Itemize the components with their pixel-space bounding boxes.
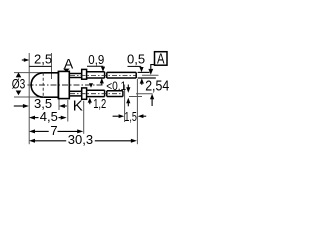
- dome-body junction dashed: [42, 73, 44, 97]
- svg-text:Ø3: Ø3: [12, 77, 25, 92]
- centerline: [28, 84, 104, 86]
- dim 2,5: [22, 59, 25, 61]
- lower lead crimp: [82, 88, 87, 99]
- lower lead seg2 flat: [87, 89, 105, 91]
- step arrows: [127, 85, 129, 89]
- extension line dome bottom: [14, 96, 42, 98]
- dim 7: [29, 129, 35, 133]
- dim 4,5: [29, 116, 35, 120]
- upper lead seg2 flat: [87, 71, 105, 73]
- svg-text:K: K: [73, 98, 83, 115]
- body top line: [43, 72, 58, 74]
- extension line dome top: [14, 72, 42, 74]
- datum leader: [151, 65, 155, 69]
- upper lead end: [135, 72, 137, 78]
- extension line body end: [58, 99, 60, 110]
- svg-text:A: A: [157, 52, 165, 68]
- body end vertical: [57, 71, 59, 98]
- extension line lower lead axis: [136, 93, 153, 95]
- flange: [58, 71, 69, 98]
- extension line lower lead bottom edge: [129, 96, 142, 98]
- svg-text:2,5: 2,5: [34, 51, 52, 66]
- extension line upper lead axis: [142, 74, 159, 76]
- extension line cathode lead end: [124, 85, 126, 123]
- upper lead seg1: [69, 73, 81, 75]
- svg-text:7: 7: [50, 123, 57, 138]
- svg-text:2,54: 2,54: [145, 79, 169, 95]
- extension line flange end: [67, 100, 69, 122]
- lower lead seg1: [69, 90, 81, 92]
- dome: [31, 73, 43, 97]
- extension line tip plane: [28, 53, 30, 144]
- upper lead seg3: [107, 71, 136, 73]
- lower lead seg3: [107, 90, 123, 92]
- dim dia arrows: [16, 72, 22, 77]
- extension line crimp end: [83, 101, 85, 134]
- upper lead axis: [70, 75, 136, 77]
- extension line upper lead top edge: [138, 71, 150, 73]
- dim 3,5: [14, 105, 24, 107]
- body bottom line: [43, 96, 58, 98]
- dim 30,3: [29, 139, 35, 143]
- svg-text:4,5: 4,5: [40, 109, 58, 124]
- lower lead axis: [70, 93, 123, 95]
- extension line 2,5 right: [51, 53, 53, 79]
- svg-text:<0,1: <0,1: [106, 79, 126, 93]
- extension line upper lead bottom edge: [138, 77, 156, 79]
- svg-text:0,9: 0,9: [88, 52, 104, 67]
- upper lead crimp: [82, 69, 87, 79]
- lower lead end: [122, 91, 124, 97]
- svg-text:1,5: 1,5: [124, 109, 136, 124]
- dim 1,2: [89, 83, 93, 88]
- dim 1,5: [113, 115, 119, 117]
- datum triangle on flange: [63, 69, 70, 72]
- svg-text:1,2: 1,2: [93, 96, 106, 111]
- datum frame A: [155, 52, 168, 65]
- svg-text:30,3: 30,3: [68, 132, 93, 147]
- extension line anode lead end: [136, 79, 138, 144]
- svg-text:0,5: 0,5: [127, 52, 145, 67]
